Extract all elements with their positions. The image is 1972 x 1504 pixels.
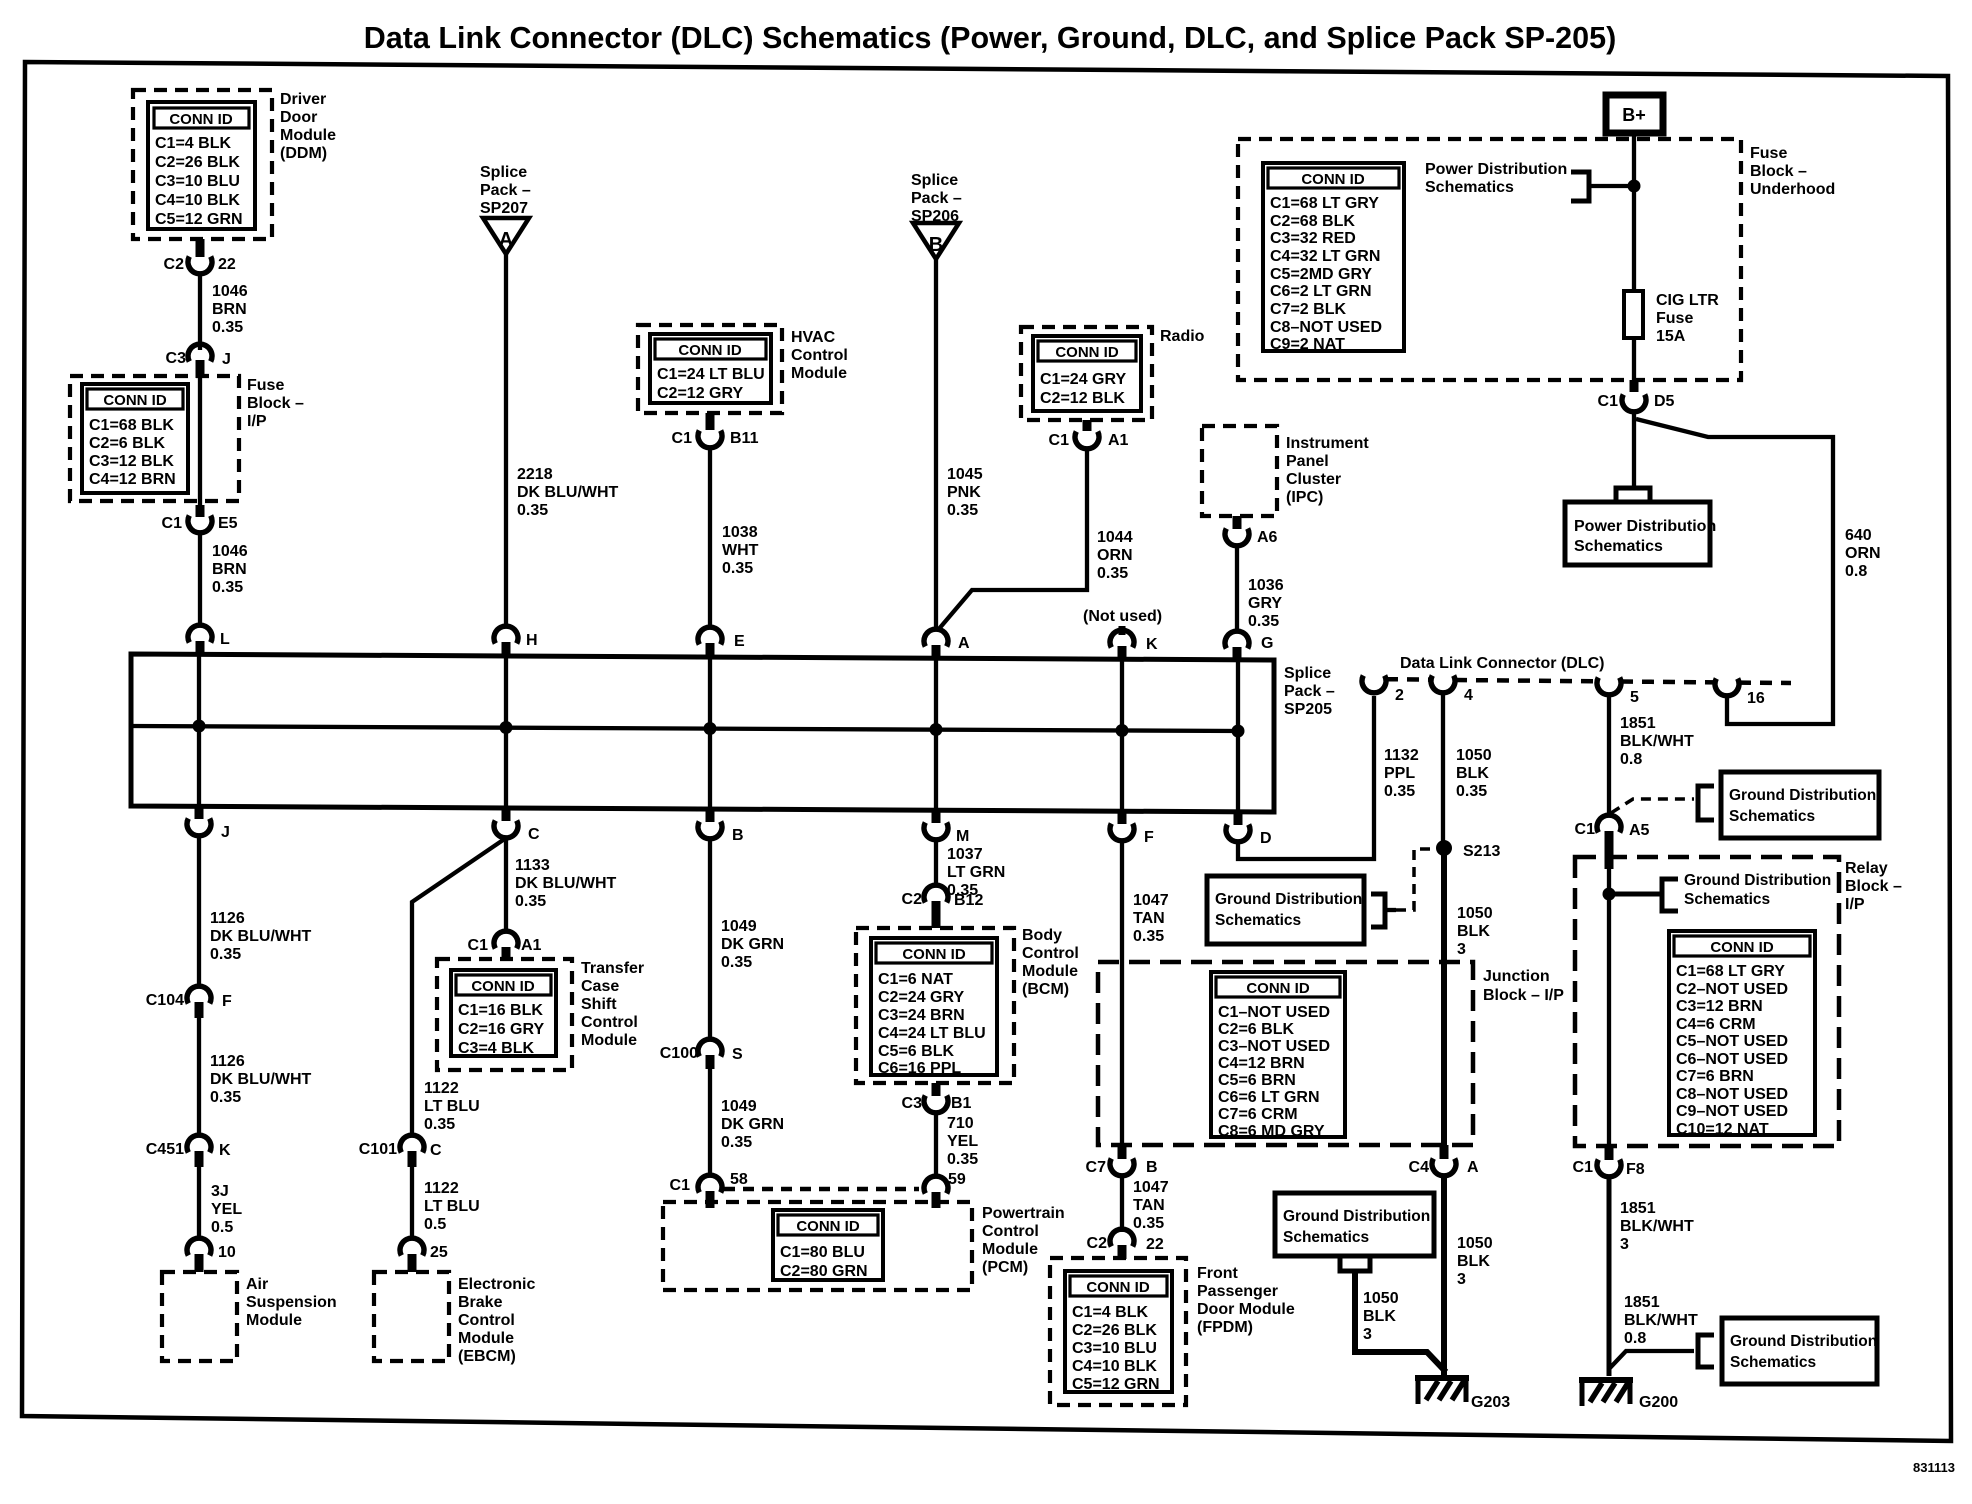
svg-text:Block –: Block – xyxy=(1845,878,1902,895)
svg-text:0.35: 0.35 xyxy=(1384,783,1415,800)
svg-text:C1: C1 xyxy=(162,515,183,532)
bracket below ground distribution box xyxy=(1340,1256,1370,1271)
svg-text:1046: 1046 xyxy=(212,543,248,560)
svg-text:Driver: Driver xyxy=(280,91,326,108)
svg-text:Ground Distribution: Ground Distribution xyxy=(1730,1333,1877,1350)
svg-text:C7=2 BLK: C7=2 BLK xyxy=(1270,301,1346,318)
svg-text:(Not used): (Not used) xyxy=(1083,608,1162,625)
bus internal wire H-C xyxy=(504,655,508,807)
wire 1047 TAN 0.35 (junction block to FPDM) xyxy=(1120,1176,1124,1232)
svg-text:C2=80 GRN: C2=80 GRN xyxy=(780,1263,868,1280)
svg-text:B+: B+ xyxy=(1622,105,1646,125)
svg-text:DK BLU/WHT: DK BLU/WHT xyxy=(210,1071,312,1088)
junction on B+ feed xyxy=(1628,180,1641,193)
Instrument Panel Cluster dashed box xyxy=(1202,426,1277,516)
svg-text:0.35: 0.35 xyxy=(210,946,241,963)
DLC pin 4 xyxy=(1431,676,1473,705)
svg-text:Radio: Radio xyxy=(1160,328,1205,345)
svg-text:C1: C1 xyxy=(670,1177,691,1194)
svg-text:Transfer: Transfer xyxy=(581,960,644,977)
svg-text:A1: A1 xyxy=(521,937,542,954)
svg-text:Power Distribution: Power Distribution xyxy=(1425,161,1567,178)
Ground Distribution Schematics box (DLC pin 5) xyxy=(1721,772,1879,838)
svg-text:Passenger: Passenger xyxy=(1197,1283,1278,1300)
svg-text:J: J xyxy=(222,351,231,368)
svg-text:C2: C2 xyxy=(902,891,923,908)
terminal G on splice pack xyxy=(1225,631,1273,660)
svg-text:(EBCM): (EBCM) xyxy=(458,1348,516,1365)
wire 1050 BLK 0.35 (DLC pin 4 to S213) xyxy=(1441,695,1445,848)
svg-text:2218: 2218 xyxy=(517,466,553,483)
connector C4 pin A below junction block xyxy=(1409,1145,1479,1176)
svg-text:C2–NOT USED: C2–NOT USED xyxy=(1676,981,1788,998)
svg-text:25: 25 xyxy=(430,1244,448,1261)
terminal F below bus xyxy=(1110,811,1154,846)
svg-text:Front: Front xyxy=(1197,1265,1239,1282)
Transfer Case CONN ID table xyxy=(451,970,556,1057)
svg-text:YEL: YEL xyxy=(211,1201,242,1218)
HVAC CONN ID table xyxy=(650,334,771,403)
svg-text:1049: 1049 xyxy=(721,918,757,935)
svg-text:Ground Distribution: Ground Distribution xyxy=(1729,787,1876,804)
svg-text:0.35: 0.35 xyxy=(515,893,546,910)
pointer bracket at ground distribution box xyxy=(1698,786,1714,820)
svg-text:G200: G200 xyxy=(1639,1394,1678,1411)
svg-text:C3=4 BLK: C3=4 BLK xyxy=(458,1040,534,1057)
svg-text:LT GRN: LT GRN xyxy=(947,864,1005,881)
terminal A on splice pack xyxy=(924,629,970,659)
fuse CIG LTR 15A xyxy=(1624,291,1719,345)
svg-text:WHT: WHT xyxy=(722,542,759,559)
svg-text:2: 2 xyxy=(1395,687,1404,704)
svg-text:C5=6 BLK: C5=6 BLK xyxy=(878,1043,954,1060)
wire fuse to C1/D5 xyxy=(1632,338,1636,385)
svg-text:Module: Module xyxy=(458,1330,514,1347)
svg-text:C2=12 BLK: C2=12 BLK xyxy=(1040,390,1125,407)
svg-text:ORN: ORN xyxy=(1845,545,1881,562)
svg-text:1851: 1851 xyxy=(1620,1200,1656,1217)
svg-text:Module: Module xyxy=(982,1241,1038,1258)
bus internal wire E-B xyxy=(708,656,712,808)
bus internal wire K-F xyxy=(1120,658,1124,810)
svg-text:710: 710 xyxy=(947,1115,974,1132)
svg-text:C3=24 BRN: C3=24 BRN xyxy=(878,1007,965,1024)
svg-text:GRY: GRY xyxy=(1248,595,1282,612)
svg-text:HVAC: HVAC xyxy=(791,329,836,346)
svg-text:C1: C1 xyxy=(1575,821,1596,838)
svg-text:C1=68 BLK: C1=68 BLK xyxy=(89,417,174,434)
Relay Block CONN ID table xyxy=(1669,931,1815,1138)
svg-text:G203: G203 xyxy=(1471,1394,1510,1411)
svg-text:C4=10 BLK: C4=10 BLK xyxy=(1072,1358,1157,1375)
svg-text:(BCM): (BCM) xyxy=(1022,981,1069,998)
svg-text:1046: 1046 xyxy=(212,283,248,300)
svg-text:C3=10 BLU: C3=10 BLU xyxy=(155,173,240,190)
connector C1 pin 58 at PCM xyxy=(670,1171,748,1208)
svg-text:(IPC): (IPC) xyxy=(1286,489,1323,506)
wire 1126 DK BLU/WHT 0.35 (J to C104) xyxy=(197,836,201,986)
wire 1046 BRN 0.35 (fuse block to splice) xyxy=(198,533,202,625)
svg-text:0.35: 0.35 xyxy=(212,319,243,336)
svg-text:831113: 831113 xyxy=(1913,1460,1955,1475)
svg-text:Schematics: Schematics xyxy=(1283,1229,1369,1246)
svg-text:C2=26 BLK: C2=26 BLK xyxy=(155,154,240,171)
svg-text:S213: S213 xyxy=(1463,843,1500,860)
svg-text:C100: C100 xyxy=(660,1045,698,1062)
svg-text:0.35: 0.35 xyxy=(947,502,978,519)
svg-text:C1=4 BLK: C1=4 BLK xyxy=(1072,1304,1148,1321)
svg-text:BLK: BLK xyxy=(1363,1308,1396,1325)
connector C7 pin B below junction block xyxy=(1086,1145,1158,1176)
HVAC Control Module dashed box xyxy=(638,325,782,413)
wire 1049 DK GRN 0.35 (C100 to PCM) xyxy=(708,1067,712,1175)
svg-text:59: 59 xyxy=(948,1171,966,1188)
wire 1133 DK BLU/WHT 0.35 (C to EBCM branch) xyxy=(412,838,506,1135)
svg-text:BLK: BLK xyxy=(1457,1253,1490,1270)
ground G200 xyxy=(1579,1378,1678,1411)
svg-text:0.35: 0.35 xyxy=(721,1134,752,1151)
svg-text:C451: C451 xyxy=(146,1141,184,1158)
svg-text:C6=6 LT GRN: C6=6 LT GRN xyxy=(1218,1089,1320,1106)
svg-text:Schematics: Schematics xyxy=(1730,1354,1816,1371)
wire 1132 PPL 0.35 (D to DLC pin 2) xyxy=(1238,696,1374,859)
svg-text:C2: C2 xyxy=(164,256,185,273)
connector C3 pin J at fuse block xyxy=(166,344,231,378)
svg-text:CONN ID: CONN ID xyxy=(471,978,535,995)
wire 1036 GRY 0.35 xyxy=(1235,546,1239,631)
svg-text:Fuse: Fuse xyxy=(247,377,284,394)
svg-text:PNK: PNK xyxy=(947,484,981,501)
terminal B below bus xyxy=(698,809,744,844)
Radio dashed box xyxy=(1021,327,1152,420)
svg-text:0.8: 0.8 xyxy=(1624,1330,1646,1347)
splice pack SP205 bus outline xyxy=(131,654,1274,812)
PCM dashed box xyxy=(663,1202,972,1290)
DLC pin 5 xyxy=(1597,678,1639,707)
Ground Distribution Schematics box (S213 ground) xyxy=(1275,1193,1434,1256)
svg-text:C1=68 LT GRY: C1=68 LT GRY xyxy=(1270,195,1379,212)
svg-text:A: A xyxy=(958,635,970,652)
Power Distribution Schematics box xyxy=(1565,502,1716,565)
svg-text:C5=12 GRN: C5=12 GRN xyxy=(1072,1376,1160,1393)
svg-text:F: F xyxy=(222,993,232,1010)
svg-text:Panel: Panel xyxy=(1286,453,1329,470)
svg-text:Pack –: Pack – xyxy=(480,182,531,199)
dashed internal link pin 58 to pin 59 xyxy=(724,1187,919,1192)
svg-text:CONN ID: CONN ID xyxy=(796,1218,860,1235)
svg-text:1045: 1045 xyxy=(947,466,983,483)
svg-text:C2=16 GRY: C2=16 GRY xyxy=(458,1021,544,1038)
wire 1851 BLK/WHT 3 (relay block to G200) xyxy=(1607,1177,1612,1376)
EBCM dashed box xyxy=(374,1272,449,1361)
PCM CONN ID table xyxy=(773,1210,883,1280)
splice pack SP206 triangle B xyxy=(913,223,959,259)
svg-text:Data Link Connector (DLC): Data Link Connector (DLC) xyxy=(1400,655,1604,672)
svg-text:K: K xyxy=(219,1142,231,1159)
svg-text:640: 640 xyxy=(1845,527,1872,544)
svg-text:1037: 1037 xyxy=(947,846,983,863)
svg-text:Control: Control xyxy=(458,1312,515,1329)
wire 1050 BLK 3 (ground distribution to G203) xyxy=(1355,1271,1446,1372)
wire 1037 LT GRN 0.35 (M to BCM) xyxy=(934,840,938,885)
pointer bracket to S213 xyxy=(1371,849,1436,927)
terminal E on splice pack xyxy=(698,627,745,657)
svg-text:58: 58 xyxy=(730,1171,748,1188)
svg-text:DK BLU/WHT: DK BLU/WHT xyxy=(517,484,619,501)
svg-text:1049: 1049 xyxy=(721,1098,757,1115)
Relay Block I/P dashed box xyxy=(1575,857,1839,1146)
B+ battery feed box xyxy=(1606,95,1663,133)
svg-text:1133: 1133 xyxy=(515,857,550,874)
svg-text:1122: 1122 xyxy=(424,1080,459,1097)
svg-text:Control: Control xyxy=(1022,945,1079,962)
bus internal wire L-J xyxy=(197,654,201,806)
svg-text:C4=32 LT GRN: C4=32 LT GRN xyxy=(1270,248,1380,265)
svg-text:C1: C1 xyxy=(1598,393,1619,410)
connector C2 pin 22 at FPDM xyxy=(1087,1229,1164,1259)
svg-text:M: M xyxy=(956,828,969,845)
svg-text:0.8: 0.8 xyxy=(1845,563,1867,580)
terminal J below bus xyxy=(187,806,230,841)
svg-text:Brake: Brake xyxy=(458,1294,503,1311)
wire 1047 TAN 0.35 (F to junction block) xyxy=(1120,841,1124,1145)
svg-text:D: D xyxy=(1260,830,1272,847)
svg-text:0.35: 0.35 xyxy=(1133,1215,1164,1232)
junction node K xyxy=(1116,724,1129,737)
svg-text:CONN ID: CONN ID xyxy=(902,946,966,963)
svg-text:C3: C3 xyxy=(902,1095,923,1112)
svg-text:CONN ID: CONN ID xyxy=(1055,344,1119,361)
splice S213 xyxy=(1436,840,1500,860)
connector C451 pin K xyxy=(146,1135,231,1167)
Fuse Block Underhood CONN ID table xyxy=(1263,163,1404,353)
terminal C below bus xyxy=(494,808,540,843)
wire 710 YEL 0.35 (BCM to PCM pin 59) xyxy=(934,1113,938,1176)
svg-text:Door: Door xyxy=(280,109,317,126)
svg-text:Block – I/P: Block – I/P xyxy=(1483,987,1564,1004)
connector C1 pin A1 at transfer case xyxy=(468,931,542,961)
svg-text:CONN ID: CONN ID xyxy=(1086,1279,1150,1296)
svg-text:1047: 1047 xyxy=(1133,1179,1169,1196)
svg-text:3: 3 xyxy=(1457,1271,1466,1288)
Fuse Block I/P CONN ID table xyxy=(82,384,188,493)
svg-text:BLK/WHT: BLK/WHT xyxy=(1620,733,1694,750)
svg-text:Pack –: Pack – xyxy=(1284,683,1335,700)
wire inside relay block xyxy=(1607,857,1611,1146)
svg-text:B1: B1 xyxy=(951,1095,972,1112)
connector pin A6 at IPC xyxy=(1225,516,1278,546)
connector C1 pin B11 at HVAC xyxy=(672,413,759,448)
connector C2 pin 22 at DDM xyxy=(164,239,236,274)
svg-text:Fuse: Fuse xyxy=(1750,145,1787,162)
svg-text:C8=6 MD GRY: C8=6 MD GRY xyxy=(1218,1123,1325,1140)
svg-text:1132: 1132 xyxy=(1384,747,1419,764)
connector C100 pin S xyxy=(660,1039,743,1069)
svg-text:DK BLU/WHT: DK BLU/WHT xyxy=(210,928,312,945)
svg-text:J: J xyxy=(221,824,230,841)
svg-text:A: A xyxy=(1467,1159,1479,1176)
svg-text:CONN ID: CONN ID xyxy=(103,392,167,409)
svg-text:C1=16 BLK: C1=16 BLK xyxy=(458,1002,543,1019)
wire 3J YEL 0.5 xyxy=(197,1163,201,1238)
svg-text:C3: C3 xyxy=(166,350,187,367)
svg-text:CONN ID: CONN ID xyxy=(169,111,233,128)
BCM CONN ID table xyxy=(871,938,997,1077)
svg-text:C1: C1 xyxy=(1049,432,1070,449)
connector C1 pin E5 below fuse block xyxy=(162,505,238,533)
svg-text:C1: C1 xyxy=(672,430,693,447)
wire 1126 DK BLU/WHT 0.35 (C104 to C451) xyxy=(197,1014,201,1135)
DDM CONN ID table xyxy=(148,102,255,229)
svg-text:C1: C1 xyxy=(468,937,489,954)
svg-text:Control: Control xyxy=(581,1014,638,1031)
svg-text:B: B xyxy=(929,234,943,256)
connector C1 pin F8 below relay block xyxy=(1573,1146,1645,1178)
svg-text:Schematics: Schematics xyxy=(1729,808,1815,825)
svg-text:Underhood: Underhood xyxy=(1750,181,1835,198)
junction node A xyxy=(930,723,943,736)
svg-text:Ground Distribution: Ground Distribution xyxy=(1283,1208,1430,1225)
wire 1050 BLK 3 (junction block to G203) xyxy=(1441,1176,1447,1375)
svg-text:C7: C7 xyxy=(1086,1159,1107,1176)
svg-text:B: B xyxy=(1146,1159,1158,1176)
junction node E xyxy=(704,722,717,735)
FPDM dashed box xyxy=(1050,1258,1186,1405)
svg-text:C101: C101 xyxy=(359,1141,397,1158)
(Not used) terminal K xyxy=(1083,608,1162,659)
svg-text:(FPDM): (FPDM) xyxy=(1197,1319,1253,1336)
svg-text:15A: 15A xyxy=(1656,328,1686,345)
svg-text:Module: Module xyxy=(1022,963,1078,980)
Ground Distribution Schematics box (splice pack D) xyxy=(1207,876,1364,944)
connector pin 59 at PCM xyxy=(924,1171,966,1208)
Transfer Case dashed box xyxy=(437,959,572,1070)
svg-text:C8–NOT USED: C8–NOT USED xyxy=(1676,1086,1788,1103)
svg-text:Junction: Junction xyxy=(1483,968,1550,985)
Fuse Block I/P dashed box xyxy=(70,376,239,501)
svg-text:Splice: Splice xyxy=(911,172,958,189)
svg-text:CONN ID: CONN ID xyxy=(1710,939,1774,956)
svg-text:TAN: TAN xyxy=(1133,1197,1165,1214)
wire 1049 DK GRN 0.35 (B to C100) xyxy=(708,839,712,1039)
svg-text:3J: 3J xyxy=(211,1183,229,1200)
Driver Door Module (DDM) dashed box xyxy=(133,90,272,239)
svg-text:PPL: PPL xyxy=(1384,765,1415,782)
svg-text:Module: Module xyxy=(246,1312,302,1329)
svg-text:C6=2 LT GRN: C6=2 LT GRN xyxy=(1270,283,1372,300)
svg-text:0.35: 0.35 xyxy=(517,502,548,519)
svg-text:C2=12 GRY: C2=12 GRY xyxy=(657,385,743,402)
svg-text:C2=68 BLK: C2=68 BLK xyxy=(1270,213,1355,230)
svg-text:A: A xyxy=(499,229,513,251)
splice pack SP207 triangle A xyxy=(483,218,529,254)
svg-text:10: 10 xyxy=(218,1244,236,1261)
DLC pin 16 xyxy=(1715,679,1765,708)
svg-text:Ground Distribution: Ground Distribution xyxy=(1684,872,1831,889)
svg-text:1050: 1050 xyxy=(1456,747,1492,764)
svg-text:0.35: 0.35 xyxy=(1133,928,1164,945)
connector C1 pin A5 at relay block xyxy=(1575,815,1650,869)
svg-text:Module: Module xyxy=(581,1032,637,1049)
svg-text:22: 22 xyxy=(218,256,236,273)
svg-text:A5: A5 xyxy=(1629,822,1650,839)
svg-text:1050: 1050 xyxy=(1457,905,1493,922)
svg-text:E: E xyxy=(734,633,745,650)
svg-text:Module: Module xyxy=(791,365,847,382)
wire 1851 BLK/WHT 0.8 (DLC pin 5 to A5) xyxy=(1607,697,1611,815)
svg-text:C4=12 BRN: C4=12 BRN xyxy=(89,471,176,488)
wire D5 to power distribution xyxy=(1632,412,1636,487)
bus internal wire G-D xyxy=(1236,659,1240,811)
svg-text:C2=6 BLK: C2=6 BLK xyxy=(89,435,165,452)
svg-text:3: 3 xyxy=(1620,1236,1629,1253)
Junction Block CONN ID table xyxy=(1211,972,1345,1140)
svg-text:C3=32 RED: C3=32 RED xyxy=(1270,230,1356,247)
svg-text:1851: 1851 xyxy=(1624,1294,1660,1311)
junction node H xyxy=(500,721,513,734)
svg-text:1126: 1126 xyxy=(210,1053,245,1070)
junction in relay block xyxy=(1603,888,1616,901)
svg-text:BLK/WHT: BLK/WHT xyxy=(1624,1312,1698,1329)
Junction Block I/P dashed box xyxy=(1098,962,1473,1145)
svg-text:C3=10 BLU: C3=10 BLU xyxy=(1072,1340,1157,1357)
svg-text:C7=6 BRN: C7=6 BRN xyxy=(1676,1068,1754,1085)
wire 1046 BRN 0.35 (DDM to fuse block) xyxy=(198,274,202,350)
svg-text:0.35: 0.35 xyxy=(1248,613,1279,630)
svg-text:C1=80 BLU: C1=80 BLU xyxy=(780,1244,865,1261)
svg-text:S: S xyxy=(732,1046,743,1063)
pointer bracket at ground distribution box (G200) xyxy=(1698,1335,1714,1367)
svg-text:C: C xyxy=(430,1142,442,1159)
svg-text:0.35: 0.35 xyxy=(212,579,243,596)
terminal D below bus xyxy=(1226,812,1272,847)
svg-text:0.35: 0.35 xyxy=(721,954,752,971)
svg-text:C3–NOT USED: C3–NOT USED xyxy=(1218,1038,1330,1055)
svg-text:LT BLU: LT BLU xyxy=(424,1098,480,1115)
wire inside fuse block xyxy=(198,376,202,505)
svg-text:A6: A6 xyxy=(1257,529,1278,546)
svg-text:3: 3 xyxy=(1457,941,1466,958)
terminal L on splice pack xyxy=(188,625,230,655)
FPDM CONN ID table xyxy=(1065,1271,1172,1393)
connector C3 pin B1 below BCM xyxy=(902,1083,972,1113)
wire B+ to fuse xyxy=(1632,133,1636,291)
svg-text:CONN ID: CONN ID xyxy=(1246,980,1310,997)
svg-text:C5=6 BRN: C5=6 BRN xyxy=(1218,1072,1296,1089)
terminal M below bus xyxy=(924,810,969,845)
svg-text:Module: Module xyxy=(280,127,336,144)
svg-text:C9=2 NAT: C9=2 NAT xyxy=(1270,336,1345,353)
svg-text:K: K xyxy=(1146,636,1158,653)
svg-text:E5: E5 xyxy=(218,515,238,532)
connector C1 pin D5 xyxy=(1598,380,1675,412)
svg-text:Schematics: Schematics xyxy=(1425,179,1514,196)
svg-text:Schematics: Schematics xyxy=(1574,538,1663,555)
svg-text:C5–NOT USED: C5–NOT USED xyxy=(1676,1033,1788,1050)
svg-text:Door Module: Door Module xyxy=(1197,1301,1295,1318)
wire 1038 WHT 0.35 xyxy=(708,448,712,627)
svg-text:3: 3 xyxy=(1363,1326,1372,1343)
svg-text:D5: D5 xyxy=(1654,393,1675,410)
svg-text:DK GRN: DK GRN xyxy=(721,1116,784,1133)
svg-text:1044: 1044 xyxy=(1097,529,1133,546)
svg-text:C1=4 BLK: C1=4 BLK xyxy=(155,135,231,152)
wire C to transfer case xyxy=(504,838,508,931)
svg-text:(DDM): (DDM) xyxy=(280,145,327,162)
svg-text:0.8: 0.8 xyxy=(1620,751,1642,768)
wire 1122 LT BLU 0.5 xyxy=(410,1163,414,1238)
svg-text:1122: 1122 xyxy=(424,1180,459,1197)
